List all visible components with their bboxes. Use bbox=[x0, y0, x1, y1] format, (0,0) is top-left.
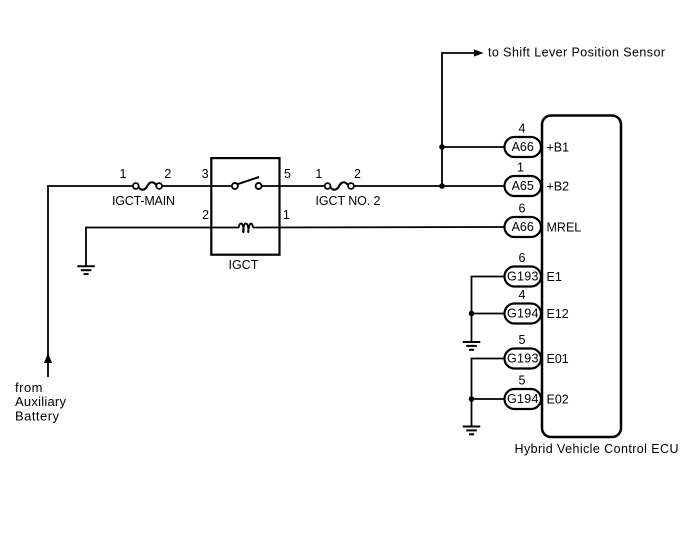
svg-text:2: 2 bbox=[354, 167, 361, 181]
svg-text:E1: E1 bbox=[547, 270, 562, 284]
svg-text:4: 4 bbox=[519, 288, 526, 302]
svg-text:G194: G194 bbox=[507, 392, 539, 406]
svg-text:IGCT-MAIN: IGCT-MAIN bbox=[112, 194, 175, 208]
svg-text:IGCT: IGCT bbox=[228, 258, 258, 272]
svg-text:2: 2 bbox=[164, 167, 171, 181]
svg-text:6: 6 bbox=[519, 202, 526, 216]
svg-text:MREL: MREL bbox=[547, 221, 582, 235]
svg-text:E02: E02 bbox=[547, 393, 569, 407]
svg-text:1: 1 bbox=[120, 167, 127, 181]
svg-text:+B2: +B2 bbox=[547, 180, 570, 194]
svg-text:G194: G194 bbox=[507, 307, 539, 321]
svg-text:A65: A65 bbox=[512, 179, 534, 193]
svg-text:5: 5 bbox=[519, 374, 526, 388]
svg-text:+B1: +B1 bbox=[547, 141, 570, 155]
svg-text:5: 5 bbox=[519, 333, 526, 347]
svg-text:3: 3 bbox=[202, 167, 209, 181]
svg-text:G193: G193 bbox=[507, 352, 539, 366]
svg-text:Auxiliary: Auxiliary bbox=[15, 394, 67, 409]
svg-text:4: 4 bbox=[519, 122, 526, 136]
svg-text:2: 2 bbox=[202, 208, 209, 222]
svg-text:5: 5 bbox=[284, 167, 291, 181]
svg-text:A66: A66 bbox=[512, 220, 534, 234]
svg-text:E01: E01 bbox=[547, 352, 569, 366]
svg-text:G193: G193 bbox=[507, 270, 539, 284]
svg-text:1: 1 bbox=[315, 167, 322, 181]
svg-text:E12: E12 bbox=[547, 307, 569, 321]
svg-text:to Shift Lever Position Sensor: to Shift Lever Position Sensor bbox=[488, 46, 665, 60]
svg-text:1: 1 bbox=[283, 208, 290, 222]
svg-text:A66: A66 bbox=[512, 140, 534, 154]
svg-text:Hybrid Vehicle Control ECU: Hybrid Vehicle Control ECU bbox=[515, 442, 679, 456]
svg-text:1: 1 bbox=[517, 161, 524, 175]
svg-text:IGCT NO. 2: IGCT NO. 2 bbox=[316, 194, 381, 208]
svg-text:6: 6 bbox=[519, 251, 526, 265]
svg-text:Battery: Battery bbox=[15, 408, 60, 423]
